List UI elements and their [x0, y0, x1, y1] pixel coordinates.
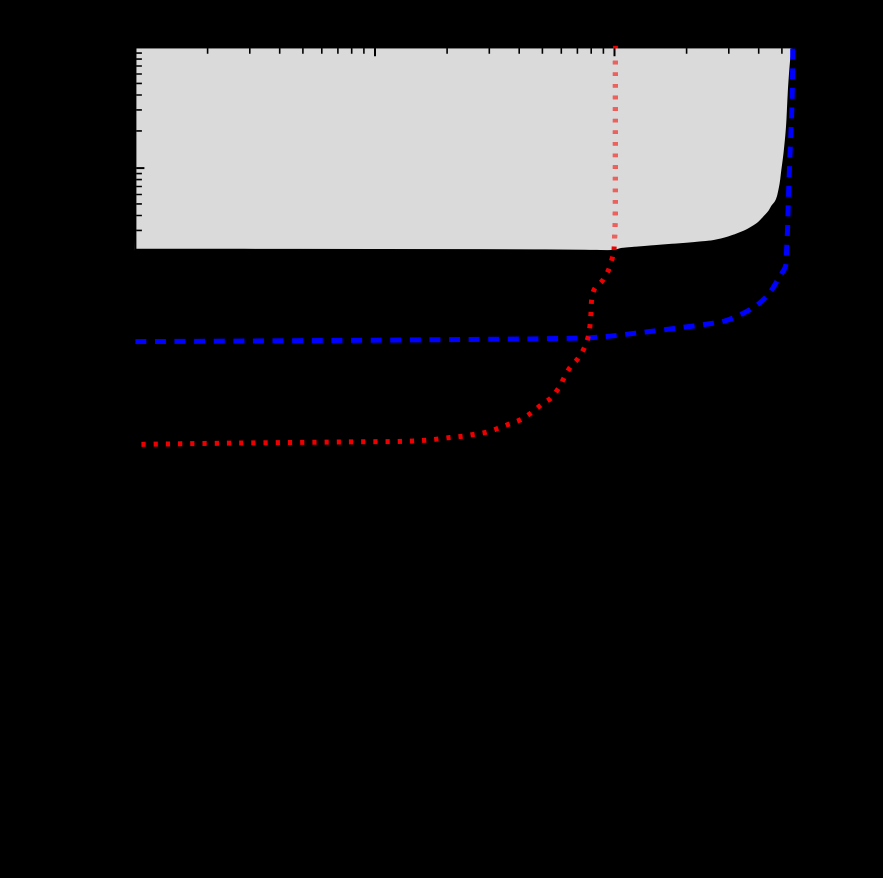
axes frame — [135, 47, 793, 834]
blue dashed curve — [135, 49, 792, 342]
shaded excluded region (light gray fill) — [134, 48, 792, 251]
top axis major ticks — [375, 48, 615, 56]
red dotted curve: lower branch (bright on black) — [137, 252, 614, 444]
red dotted curve: vertical branch (bright base) — [614, 54, 615, 250]
black solid curve bounding the gray region — [134, 48, 792, 251]
left axis major tick — [136, 167, 144, 169]
top axis minor ticks — [208, 48, 782, 54]
left axis minor ticks — [136, 53, 142, 230]
red tick where dotted curve crosses top frame — [613, 46, 618, 49]
